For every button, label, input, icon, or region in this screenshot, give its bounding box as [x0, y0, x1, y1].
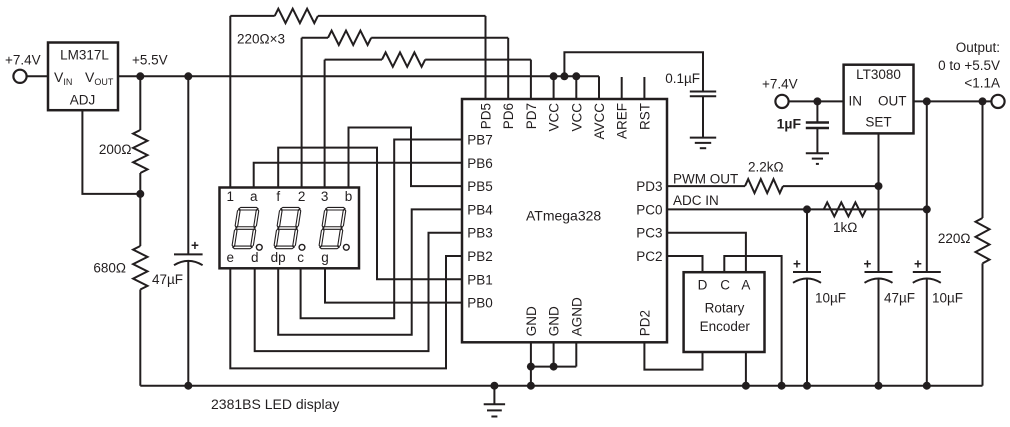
- svg-text:VCC: VCC: [547, 103, 562, 132]
- svg-text:2: 2: [298, 189, 306, 204]
- svg-text:PC2: PC2: [636, 249, 662, 264]
- svg-text:VOUT: VOUT: [85, 69, 114, 87]
- svg-text:0.1µF: 0.1µF: [665, 71, 700, 86]
- svg-text:PC3: PC3: [636, 226, 662, 241]
- svg-text:GND: GND: [547, 306, 562, 336]
- svg-text:PB2: PB2: [467, 249, 493, 264]
- svg-text:47µF: 47µF: [152, 272, 183, 287]
- svg-text:PD6: PD6: [501, 103, 516, 129]
- svg-text:220Ω×3: 220Ω×3: [237, 32, 285, 47]
- svg-text:VIN: VIN: [54, 69, 72, 87]
- svg-text:+: +: [793, 257, 801, 272]
- svg-text:1µF: 1µF: [777, 116, 802, 132]
- svg-text:D: D: [698, 278, 708, 293]
- svg-text:ADJ: ADJ: [70, 92, 96, 107]
- svg-text:SET: SET: [865, 115, 891, 130]
- svg-text:2.2kΩ: 2.2kΩ: [748, 160, 784, 175]
- svg-text:10µF: 10µF: [815, 291, 846, 306]
- svg-text:680Ω: 680Ω: [93, 261, 126, 276]
- svg-text:+7.4V: +7.4V: [5, 53, 41, 68]
- svg-text:g: g: [321, 250, 329, 265]
- svg-text:PB4: PB4: [467, 202, 493, 217]
- svg-text:AVCC: AVCC: [592, 103, 607, 140]
- svg-text:1kΩ: 1kΩ: [833, 220, 857, 235]
- svg-text:PB3: PB3: [467, 226, 493, 241]
- svg-text:<1.1A: <1.1A: [964, 76, 1000, 91]
- svg-text:f: f: [276, 189, 280, 204]
- svg-text:0 to +5.5V: 0 to +5.5V: [938, 58, 1000, 73]
- svg-text:PB5: PB5: [467, 179, 493, 194]
- svg-text:3: 3: [321, 189, 329, 204]
- svg-text:+: +: [864, 257, 872, 272]
- svg-text:ADC IN: ADC IN: [673, 193, 719, 208]
- svg-text:PC0: PC0: [636, 202, 662, 217]
- svg-text:+7.4V: +7.4V: [762, 77, 798, 92]
- svg-text:PB6: PB6: [467, 156, 493, 171]
- svg-text:c: c: [297, 250, 304, 265]
- svg-text:IN: IN: [849, 94, 863, 109]
- svg-text:PD2: PD2: [637, 310, 652, 336]
- svg-text:e: e: [227, 250, 235, 265]
- svg-text:47µF: 47µF: [884, 291, 915, 306]
- svg-text:ATmega328: ATmega328: [526, 208, 601, 224]
- svg-text:PB7: PB7: [467, 133, 493, 148]
- svg-text:a: a: [250, 189, 258, 204]
- svg-text:d: d: [251, 250, 259, 265]
- svg-text:+: +: [191, 238, 199, 253]
- svg-text:2381BS LED display: 2381BS LED display: [211, 396, 339, 412]
- svg-text:+: +: [914, 257, 922, 272]
- svg-text:PD7: PD7: [524, 103, 539, 129]
- svg-text:PB0: PB0: [467, 296, 493, 311]
- svg-text:Rotary: Rotary: [705, 301, 745, 316]
- svg-text:GND: GND: [524, 306, 539, 336]
- svg-text:+5.5V: +5.5V: [132, 53, 168, 68]
- svg-text:PB1: PB1: [467, 272, 493, 287]
- svg-text:10µF: 10µF: [932, 291, 963, 306]
- svg-text:220Ω: 220Ω: [938, 231, 971, 246]
- svg-text:AREF: AREF: [615, 103, 630, 139]
- svg-text:C: C: [720, 278, 730, 293]
- svg-text:Output:: Output:: [956, 40, 1000, 55]
- svg-text:PD5: PD5: [479, 103, 494, 129]
- svg-text:200Ω: 200Ω: [99, 142, 132, 157]
- svg-text:Encoder: Encoder: [700, 319, 751, 334]
- svg-text:RST: RST: [637, 103, 652, 130]
- svg-text:OUT: OUT: [878, 94, 907, 109]
- svg-text:VCC: VCC: [569, 103, 584, 132]
- svg-text:b: b: [345, 189, 353, 204]
- svg-text:dp: dp: [271, 250, 286, 265]
- svg-text:1: 1: [227, 189, 235, 204]
- svg-text:A: A: [741, 278, 750, 293]
- svg-text:AGND: AGND: [569, 297, 584, 336]
- svg-text:LT3080: LT3080: [856, 67, 901, 82]
- svg-text:LM317L: LM317L: [60, 48, 109, 63]
- svg-text:PD3: PD3: [636, 179, 662, 194]
- svg-text:PWM OUT: PWM OUT: [673, 172, 738, 187]
